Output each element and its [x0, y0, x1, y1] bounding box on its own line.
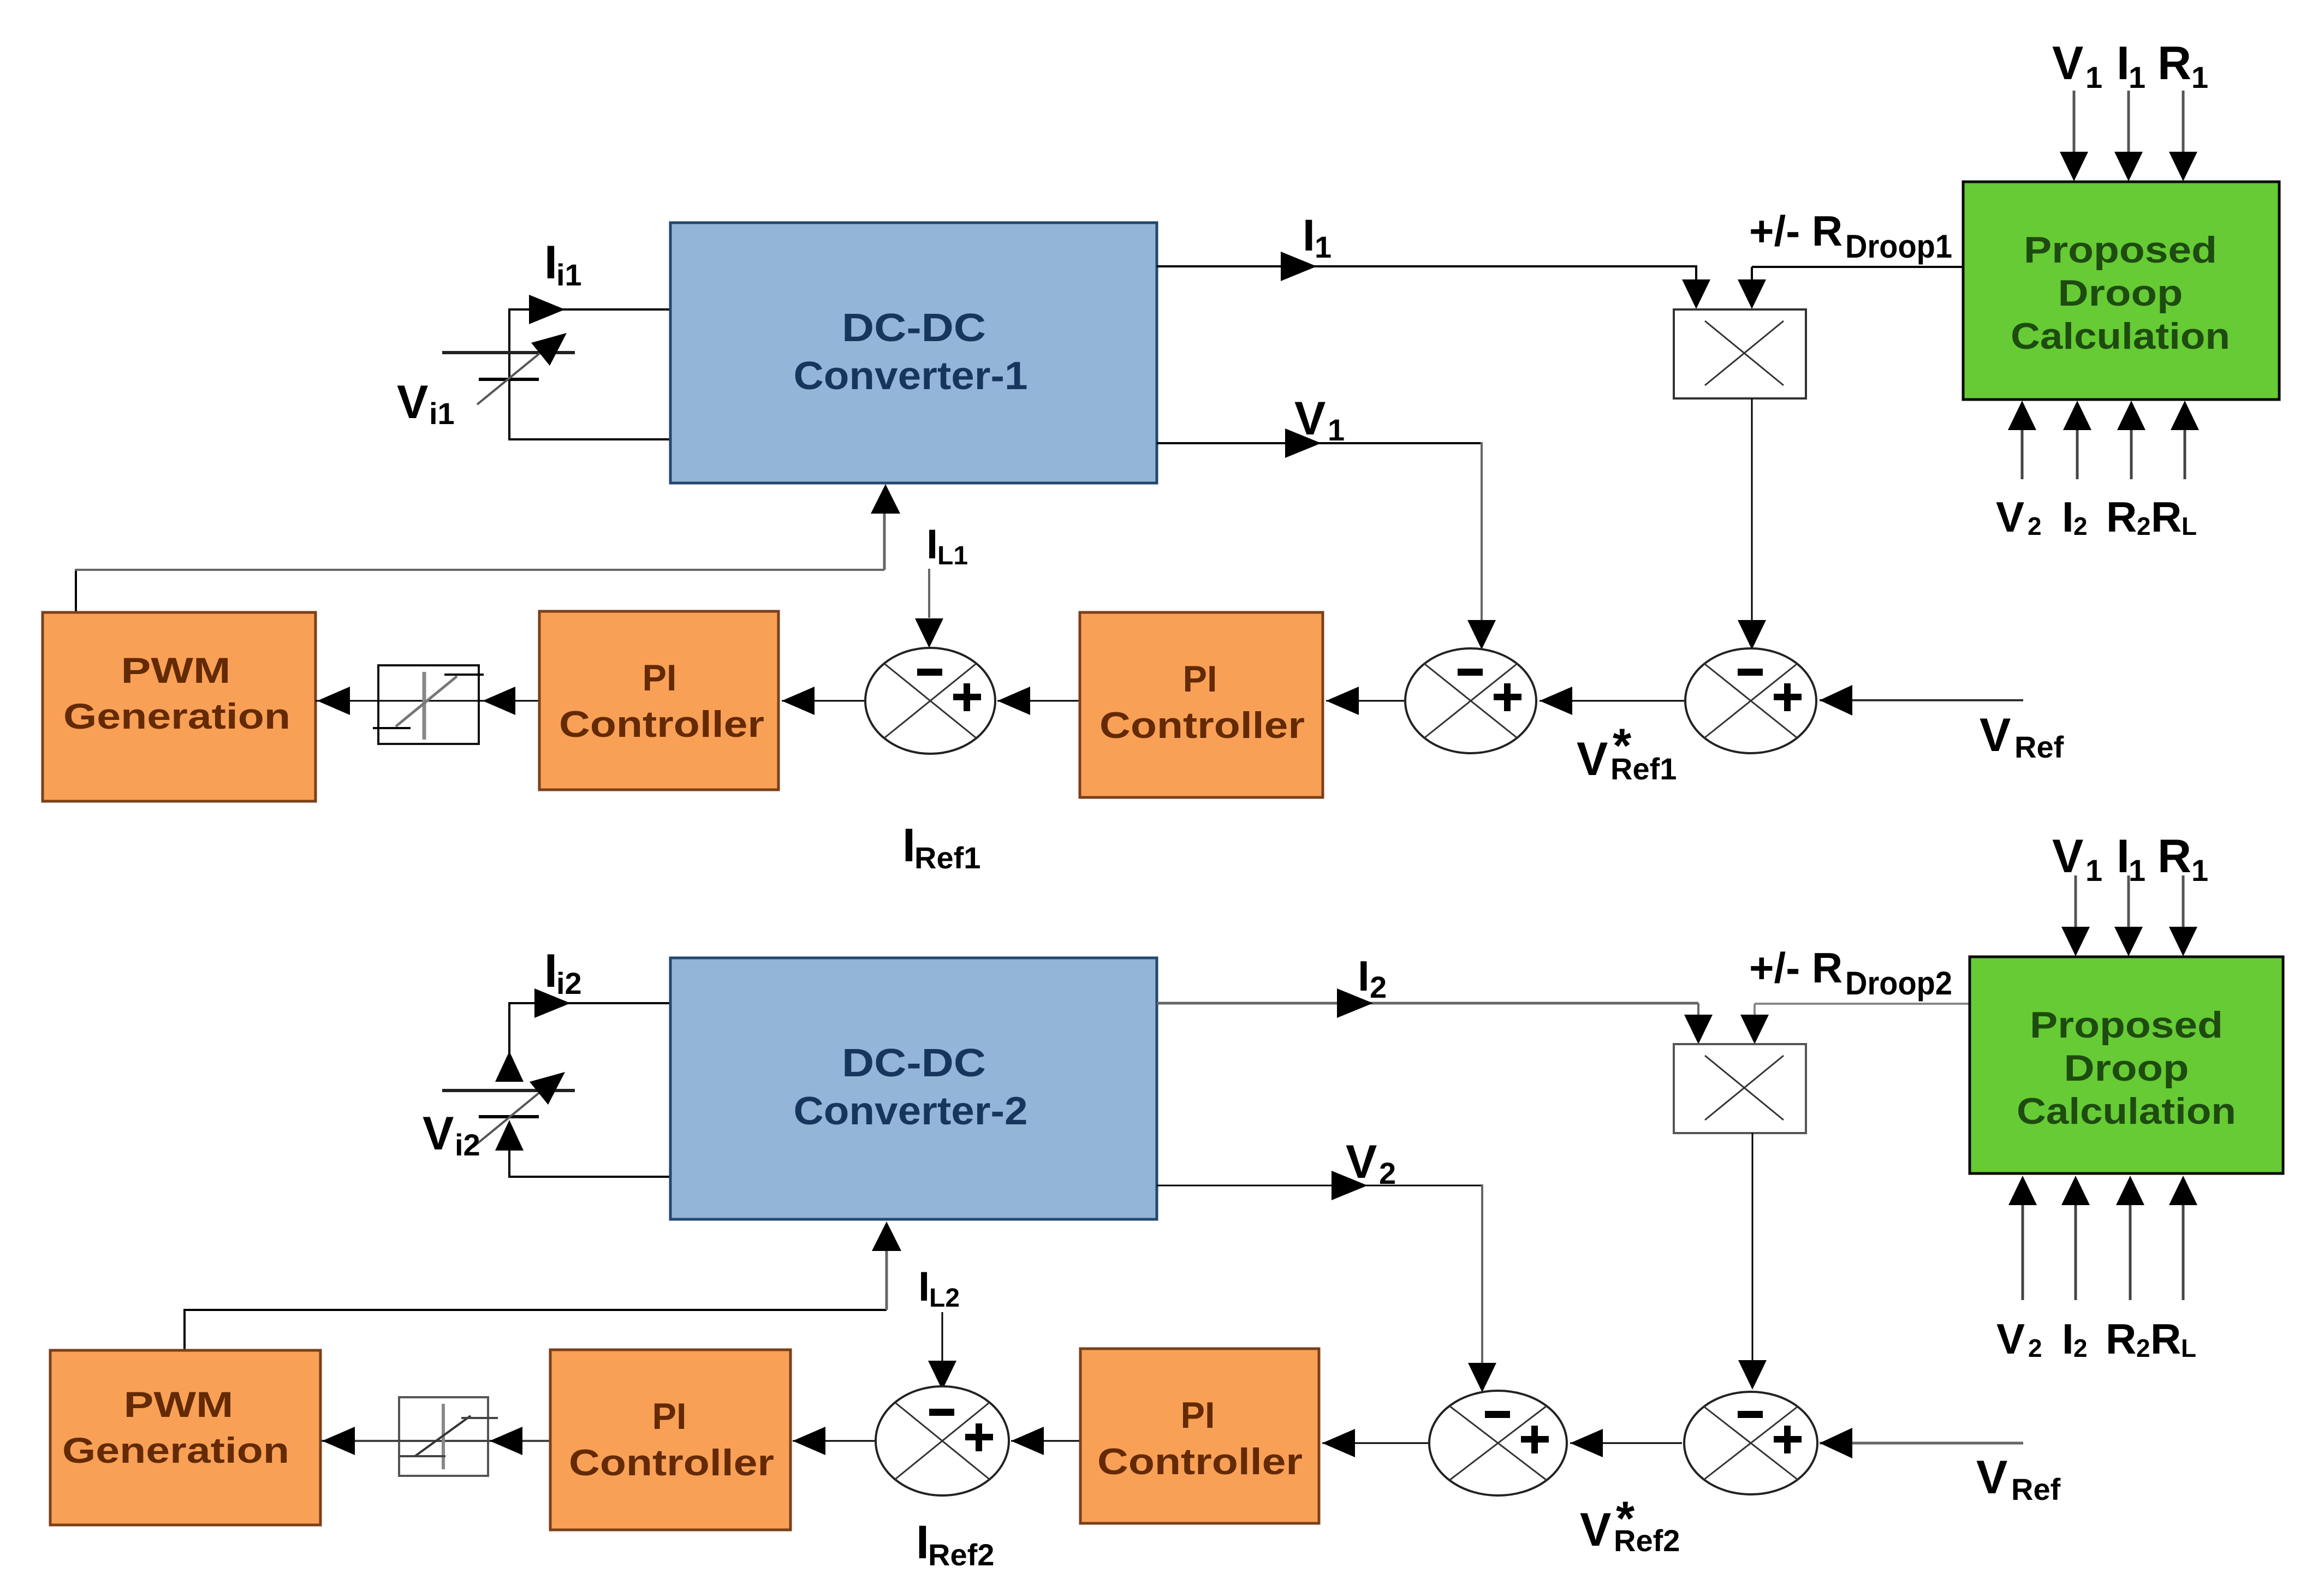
svg-text:V: V	[2052, 37, 2083, 90]
svg-text:R: R	[2151, 493, 2182, 541]
summing junction 5 (V2)	[1429, 1391, 1567, 1495]
svg-text:L2: L2	[929, 1284, 960, 1313]
arrow into saturation row1	[483, 687, 515, 715]
wire VRef into summing3	[1820, 699, 2023, 701]
svg-text:I: I	[2117, 37, 2130, 90]
wire summing4 to PI3	[793, 1440, 876, 1442]
wire PI4 to summing4	[1011, 1440, 1080, 1442]
source Vi2 lower up arrow	[495, 1120, 524, 1151]
block Proposed Droop Calculation row1	[1963, 182, 2279, 400]
source Vi2 upper vertical wire	[508, 1002, 510, 1054]
wire I2 output	[1157, 1002, 1698, 1005]
svg-text:1: 1	[2191, 853, 2208, 887]
arrow into saturation row2	[490, 1427, 522, 1455]
block PI Controller row2 right	[1080, 1349, 1319, 1523]
svg-text:2: 2	[2137, 512, 2151, 540]
svg-text:V: V	[2052, 830, 2083, 883]
svg-text:L: L	[2181, 1334, 2196, 1362]
input arrows V2 I2 R2 RL into droop block bottom row2	[2022, 1205, 2024, 1300]
block DC-DC Converter-2	[670, 958, 1157, 1219]
wire V2 output to summing junction 5	[1157, 1185, 1483, 1187]
svg-text:Generation: Generation	[63, 696, 290, 736]
input arrows V1 I1 R1 into droop block row1	[2073, 91, 2076, 154]
source Vi2 lower vertical wire	[508, 1146, 510, 1178]
wire V1 output to summing junction 2	[1157, 442, 1483, 444]
summing junction 4 (IL2)	[876, 1386, 1009, 1495]
svg-text:PI: PI	[1181, 1395, 1215, 1436]
svg-text:L: L	[2182, 512, 2197, 540]
svg-text:I: I	[916, 1516, 929, 1569]
wire IL1 into summing junction 1	[928, 569, 930, 618]
source Vi1 top wire	[509, 308, 673, 311]
wire summing2 to PI2	[1326, 700, 1405, 702]
svg-text:I: I	[2062, 1315, 2074, 1363]
source Vi2 lower bar	[479, 1115, 539, 1118]
svg-text:V: V	[1996, 493, 2024, 541]
source Vi2 current arrow Ii2	[534, 988, 570, 1018]
block PWM Generation row1	[43, 612, 316, 801]
source Vi1 current arrow Ii1	[529, 295, 565, 324]
svg-text:2: 2	[2136, 1334, 2150, 1362]
svg-text:1: 1	[1315, 230, 1332, 264]
svg-text:V: V	[1996, 1315, 2025, 1363]
svg-text:PWM: PWM	[121, 650, 231, 690]
svg-text:V: V	[1580, 1504, 1611, 1556]
summing junction 3 (VRef)	[1685, 648, 1816, 753]
svg-text:Controller: Controller	[559, 704, 764, 745]
svg-text:1: 1	[2129, 853, 2145, 887]
svg-text:R: R	[2157, 37, 2191, 90]
source Vi1 lower bar	[479, 378, 539, 381]
svg-text:V: V	[1346, 1136, 1377, 1188]
svg-text:V: V	[1294, 392, 1326, 445]
source Vi1 upper bar	[442, 351, 575, 354]
svg-text:I: I	[544, 945, 557, 997]
source Vi2 bottom wire	[509, 1176, 673, 1178]
summing junction 1 (IL1)	[865, 648, 995, 754]
summing junction 6 (VRef)	[1684, 1392, 1817, 1494]
svg-text:Proposed: Proposed	[2030, 1004, 2223, 1046]
svg-text:Droop1: Droop1	[1845, 228, 1952, 265]
svg-text:PI: PI	[643, 657, 677, 699]
svg-text:2: 2	[2073, 512, 2088, 540]
arrow into PWM2	[322, 1427, 355, 1455]
source Vi1 vertical wire	[508, 308, 510, 440]
svg-text:I: I	[2117, 830, 2130, 883]
source Vi2 top wire	[509, 1002, 673, 1004]
svg-text:i1: i1	[429, 396, 455, 431]
svg-text:Proposed: Proposed	[2024, 229, 2217, 271]
svg-text:2: 2	[2073, 1334, 2088, 1362]
source Vi1 bottom wire	[509, 438, 673, 440]
summing junction 2 (V1)	[1405, 648, 1536, 753]
svg-text:Calculation: Calculation	[2011, 315, 2230, 357]
svg-text:Ref1: Ref1	[914, 841, 980, 875]
svg-text:L1: L1	[937, 541, 968, 570]
svg-text:Converter-2: Converter-2	[794, 1089, 1028, 1133]
svg-text:1: 1	[2085, 853, 2102, 887]
svg-text:Droop2: Droop2	[1845, 965, 1952, 1002]
wire +/- RDroop2 from droop block to multiplier	[1755, 1003, 1970, 1005]
svg-text:1: 1	[1328, 413, 1345, 447]
svg-text:i1: i1	[556, 258, 582, 292]
wire multiplier1 output to summing junction	[1751, 398, 1753, 622]
svg-text:I: I	[1358, 952, 1370, 1000]
svg-text:R: R	[2106, 493, 2137, 541]
svg-text:+/- R: +/- R	[1749, 944, 1842, 992]
svg-text:V: V	[1577, 733, 1608, 785]
svg-text:i2: i2	[455, 1128, 480, 1162]
block PI Controller row1 left	[539, 611, 778, 790]
svg-text:I: I	[926, 521, 938, 568]
wire I1 output	[1157, 265, 1697, 267]
svg-text:Calculation: Calculation	[2017, 1091, 2236, 1132]
svg-text:V: V	[423, 1107, 454, 1160]
svg-text:R: R	[2157, 830, 2191, 883]
svg-text:Droop: Droop	[2058, 272, 2183, 314]
block DC-DC Converter-1	[670, 223, 1157, 483]
multiplier block (product) row2	[1674, 1044, 1806, 1133]
svg-text:I: I	[918, 1264, 930, 1310]
arrow into PWM1	[317, 687, 350, 715]
wire summing1 to PI1	[782, 700, 865, 702]
source Vi1 variable diagonal arrow	[477, 348, 546, 404]
saturation block row1	[378, 665, 479, 744]
svg-text:2: 2	[2028, 512, 2042, 540]
svg-text:1: 1	[2129, 60, 2145, 94]
wire IL2 into summing junction 4	[942, 1312, 943, 1361]
wire through saturation row2	[320, 1440, 550, 1442]
wire summing3 to summing2	[1540, 700, 1685, 702]
wire +/- RDroop1 from droop block to multiplier	[1752, 266, 1963, 268]
svg-text:V: V	[397, 376, 428, 428]
svg-text:Ref1: Ref1	[1610, 752, 1677, 786]
svg-text:Generation: Generation	[62, 1430, 289, 1470]
feedback wire PWM1 to converter1 gate	[75, 570, 77, 612]
svg-text:PI: PI	[652, 1396, 687, 1437]
source Vi2 upper bar	[442, 1089, 575, 1092]
feedback wire PWM2 to converter2 gate	[183, 1311, 186, 1350]
svg-text:Ref2: Ref2	[928, 1538, 994, 1572]
svg-text:V: V	[1976, 1451, 2007, 1504]
wire PI2 to summing1	[997, 700, 1080, 702]
input arrows V1 I1 R1 into droop block row2	[2075, 875, 2077, 929]
block PI Controller row2 left	[550, 1350, 790, 1530]
svg-text:PWM: PWM	[124, 1384, 234, 1425]
svg-text:Droop: Droop	[2064, 1047, 2189, 1089]
multiplier block (product) row1	[1674, 309, 1806, 398]
svg-text:I: I	[1303, 211, 1315, 260]
saturation block row2	[399, 1397, 488, 1476]
svg-text:Ref: Ref	[2014, 730, 2064, 764]
svg-text:2: 2	[1379, 1156, 1396, 1190]
block Proposed Droop Calculation row2	[1970, 957, 2283, 1173]
svg-text:R: R	[2106, 1315, 2136, 1363]
svg-text:1: 1	[2085, 60, 2102, 94]
svg-text:V: V	[1980, 709, 2011, 761]
svg-text:DC-DC: DC-DC	[842, 306, 986, 350]
svg-text:Controller: Controller	[1097, 1441, 1303, 1482]
svg-text:2: 2	[1370, 970, 1387, 1004]
svg-text:2: 2	[2028, 1334, 2042, 1362]
block PI Controller row1 right	[1080, 612, 1323, 797]
svg-text:i2: i2	[556, 966, 582, 1000]
svg-text:I: I	[902, 819, 916, 872]
wire VRef into summing6	[1820, 1442, 2023, 1445]
svg-text:R: R	[2150, 1315, 2181, 1363]
wire summing6 to summing5	[1570, 1443, 1682, 1444]
svg-text:Controller: Controller	[1099, 705, 1305, 746]
svg-text:PI: PI	[1183, 658, 1217, 700]
wire summing5 to PI4	[1322, 1443, 1429, 1444]
input arrows V2 I2 R2 RL into droop block bottom row1	[2021, 430, 2024, 479]
svg-text:+/- R: +/- R	[1749, 207, 1842, 255]
svg-text:DC-DC: DC-DC	[842, 1041, 986, 1085]
wire through saturation row1	[316, 700, 541, 702]
source Vi2 variable diagonal arrow	[473, 1087, 546, 1147]
svg-text:1: 1	[2191, 60, 2208, 94]
block PWM Generation row2	[50, 1350, 320, 1525]
svg-text:Ref: Ref	[2011, 1472, 2061, 1506]
svg-text:Converter-1: Converter-1	[794, 354, 1028, 398]
svg-text:Ref2: Ref2	[1614, 1523, 1680, 1558]
svg-text:Controller: Controller	[569, 1442, 774, 1483]
wire multiplier2 output to summing junction 6	[1752, 1133, 1754, 1362]
svg-text:I: I	[544, 236, 557, 289]
svg-text:I: I	[2062, 493, 2074, 541]
